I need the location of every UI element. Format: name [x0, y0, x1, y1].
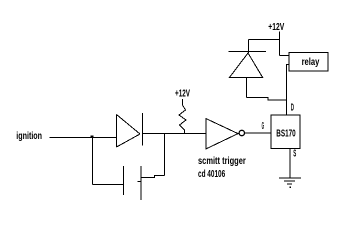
- svg-text:D: D: [291, 103, 294, 114]
- wire source down: [289, 149, 291, 179]
- wire diode anode down: [246, 77, 248, 97]
- diode D2 cathode bar: [228, 51, 265, 53]
- capacitor C1 small tick mark: [138, 181, 142, 183]
- wire drain vertical: [286, 65, 288, 116]
- wire ignition input: [50, 137, 117, 139]
- op-amp U1 schmitt trigger triangle: [206, 119, 238, 149]
- transistor Q1 BS170 box: [271, 115, 300, 149]
- wire diode cathode connector: [248, 40, 250, 53]
- wire node A down: [92, 138, 94, 185]
- capacitor C1 left plate: [123, 166, 125, 195]
- wire capacitor right lead: [141, 176, 165, 178]
- svg-text:relay: relay: [302, 57, 320, 68]
- wire +12V lead down: [279, 32, 281, 56]
- wire +12V tick to relay: [280, 55, 290, 57]
- ground bar 3: [287, 183, 292, 185]
- svg-text:+12V: +12V: [268, 22, 284, 33]
- relay K1 box: [289, 53, 328, 72]
- wire relay to drain hook: [287, 65, 290, 67]
- svg-text:cd 40106: cd 40106: [198, 169, 225, 180]
- ground bar 2: [284, 180, 295, 182]
- svg-text:ignition: ignition: [16, 131, 42, 142]
- diode D2 triangle: [230, 53, 263, 77]
- diode D1 triangle: [117, 115, 141, 148]
- capacitor C1 right plate: [140, 166, 142, 200]
- ground dot: [289, 187, 291, 189]
- ground bar 1: [279, 177, 301, 179]
- wire bottom left to capacitor: [93, 184, 124, 186]
- svg-text:+12V: +12V: [175, 88, 190, 99]
- wire diode bottom to drain: [247, 97, 287, 100]
- svg-text:G: G: [262, 121, 264, 132]
- wire node B down: [164, 134, 166, 176]
- svg-text:BS170: BS170: [276, 129, 296, 140]
- svg-text:scmitt trigger: scmitt trigger: [198, 156, 246, 167]
- diode D1 cathode bar: [142, 113, 144, 146]
- wire schmitt output to gate: [245, 132, 271, 134]
- op-amp U1 inverter bubble: [239, 130, 244, 135]
- wire top +12V to diode: [249, 39, 280, 41]
- svg-text:S: S: [293, 149, 296, 160]
- wire diode to schmitt input: [143, 133, 207, 135]
- node A junction blob: [91, 136, 94, 139]
- resistor R1 zigzag: [179, 99, 186, 134]
